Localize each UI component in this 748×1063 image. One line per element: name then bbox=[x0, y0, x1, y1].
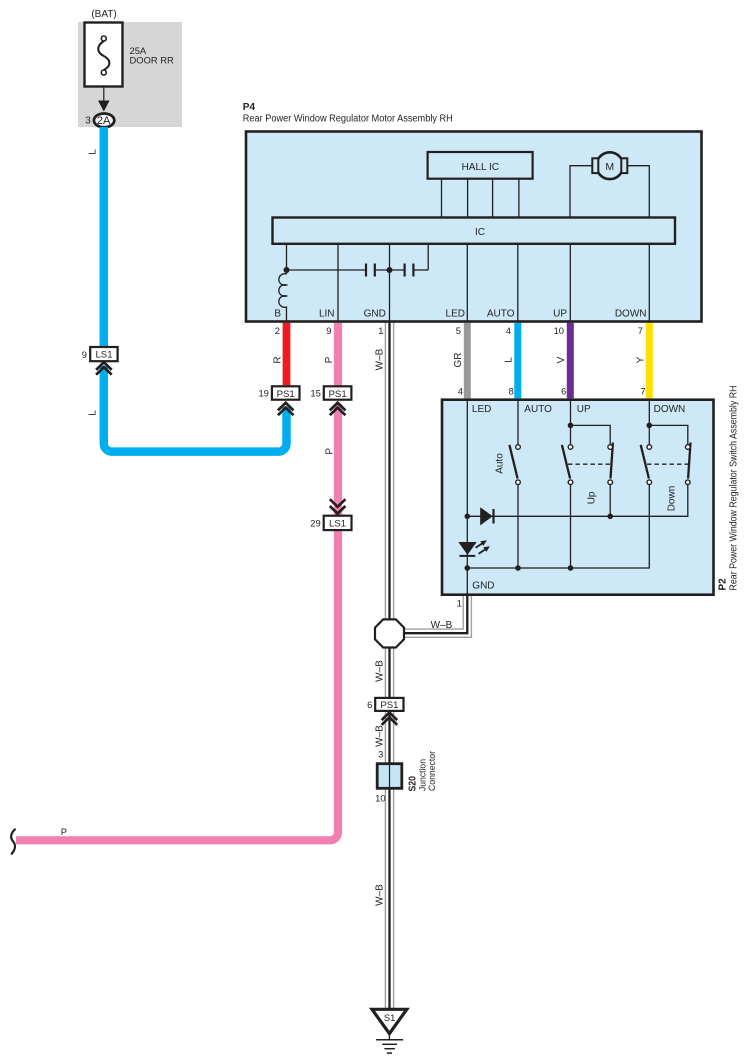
svg-text:3: 3 bbox=[378, 748, 383, 759]
svg-text:LED: LED bbox=[472, 404, 491, 415]
svg-text:M: M bbox=[605, 161, 614, 173]
svg-text:GR: GR bbox=[453, 353, 464, 368]
svg-text:6: 6 bbox=[561, 385, 566, 396]
svg-text:B: B bbox=[274, 308, 281, 319]
svg-text:Down: Down bbox=[666, 486, 677, 512]
svg-text:LS1: LS1 bbox=[329, 519, 346, 530]
svg-text:3: 3 bbox=[85, 115, 91, 126]
svg-text:1: 1 bbox=[378, 325, 383, 336]
svg-text:L: L bbox=[504, 357, 515, 363]
svg-text:R: R bbox=[273, 356, 284, 363]
svg-text:P: P bbox=[324, 356, 335, 363]
svg-text:LIN: LIN bbox=[319, 308, 335, 319]
svg-text:P2: P2 bbox=[717, 578, 728, 591]
svg-text:2A: 2A bbox=[97, 115, 111, 127]
svg-text:6: 6 bbox=[367, 699, 372, 710]
svg-text:P4: P4 bbox=[243, 102, 256, 113]
svg-text:29: 29 bbox=[310, 517, 320, 528]
svg-text:(BAT): (BAT) bbox=[91, 9, 116, 20]
svg-text:AUTO: AUTO bbox=[487, 308, 515, 319]
svg-text:S20: S20 bbox=[407, 776, 418, 792]
svg-text:L: L bbox=[88, 149, 99, 155]
svg-text:4: 4 bbox=[458, 385, 463, 396]
svg-text:GND: GND bbox=[472, 581, 494, 592]
svg-text:Y: Y bbox=[635, 356, 646, 363]
svg-text:P: P bbox=[61, 826, 67, 837]
svg-text:IC: IC bbox=[475, 227, 485, 238]
svg-text:DOOR RR: DOOR RR bbox=[130, 54, 175, 65]
svg-text:V: V bbox=[556, 356, 567, 363]
svg-text:5: 5 bbox=[456, 325, 461, 336]
svg-text:19: 19 bbox=[258, 388, 268, 399]
svg-text:LED: LED bbox=[446, 308, 465, 319]
svg-text:7: 7 bbox=[638, 325, 643, 336]
svg-text:PS1: PS1 bbox=[329, 389, 347, 400]
svg-text:HALL IC: HALL IC bbox=[462, 162, 499, 173]
svg-text:PS1: PS1 bbox=[277, 389, 295, 400]
svg-text:10: 10 bbox=[375, 793, 385, 804]
svg-text:9: 9 bbox=[326, 325, 331, 336]
svg-text:W–B: W–B bbox=[375, 884, 386, 906]
svg-text:7: 7 bbox=[640, 385, 645, 396]
svg-text:P: P bbox=[324, 448, 335, 455]
svg-text:8: 8 bbox=[509, 385, 514, 396]
svg-text:W–B: W–B bbox=[375, 725, 386, 747]
svg-text:Rear Power Window Regulator Mo: Rear Power Window Regulator Motor Assemb… bbox=[243, 114, 453, 125]
svg-text:DOWN: DOWN bbox=[615, 308, 647, 319]
svg-text:4: 4 bbox=[506, 325, 511, 336]
svg-text:9: 9 bbox=[82, 349, 87, 360]
svg-text:DOWN: DOWN bbox=[654, 404, 686, 415]
svg-text:W–B: W–B bbox=[375, 348, 386, 370]
svg-text:W–B: W–B bbox=[375, 660, 386, 682]
svg-text:UP: UP bbox=[577, 404, 591, 415]
svg-text:S1: S1 bbox=[384, 1012, 395, 1023]
svg-text:PS1: PS1 bbox=[380, 700, 398, 711]
svg-text:AUTO: AUTO bbox=[524, 404, 552, 415]
svg-text:GND: GND bbox=[364, 308, 386, 319]
svg-text:10: 10 bbox=[554, 325, 564, 336]
svg-text:W–B: W–B bbox=[431, 620, 453, 631]
svg-text:2: 2 bbox=[275, 325, 280, 336]
svg-text:Rear Power Window Regulator Sw: Rear Power Window Regulator Switch Assem… bbox=[729, 386, 740, 591]
svg-text:L: L bbox=[88, 410, 99, 416]
svg-text:15: 15 bbox=[310, 388, 320, 399]
svg-text:LS1: LS1 bbox=[95, 350, 112, 361]
svg-text:Connector: Connector bbox=[427, 751, 438, 791]
svg-text:UP: UP bbox=[553, 308, 567, 319]
svg-text:1: 1 bbox=[457, 598, 462, 609]
svg-text:Auto: Auto bbox=[494, 453, 505, 474]
svg-text:Up: Up bbox=[586, 491, 597, 504]
